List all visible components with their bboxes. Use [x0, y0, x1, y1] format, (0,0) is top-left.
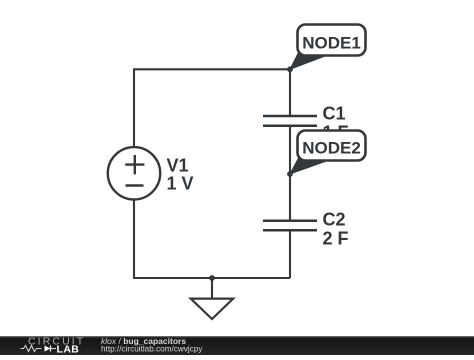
- node NODE2 flag tail: [290, 158, 325, 174]
- logo diode: [45, 346, 51, 352]
- svg-text:C1: C1: [323, 104, 346, 124]
- svg-text:NODE2: NODE2: [302, 138, 361, 157]
- junction dot NODE1: [287, 66, 293, 72]
- capacitor C2: [263, 221, 317, 231]
- svg-text:NODE1: NODE1: [302, 33, 361, 52]
- node NODE1 flag box: [298, 25, 366, 56]
- wire right vertical (C1 to C2): [289, 126, 291, 222]
- footer bar: [0, 336, 474, 355]
- capacitor C1: [263, 116, 317, 126]
- svg-text:V1: V1: [167, 156, 189, 176]
- node NODE2 flag box: [298, 131, 366, 161]
- svg-text:http://circuitlab.com/cwvjcpy: http://circuitlab.com/cwvjcpy: [101, 345, 203, 354]
- svg-text:1 V: 1 V: [167, 174, 194, 194]
- wire ground stub: [211, 278, 213, 299]
- svg-text:LAB: LAB: [57, 343, 80, 355]
- voltage source V1: [108, 147, 160, 199]
- logo resistor zigzag: [21, 346, 42, 352]
- svg-text:2 F: 2 F: [323, 229, 349, 249]
- wire right vertical (C2 to bottom): [289, 230, 291, 278]
- wire left vertical (bottom of V1): [133, 200, 135, 279]
- junction dot NODE2: [287, 171, 293, 177]
- svg-text:C2: C2: [323, 210, 346, 230]
- junction dot ground: [209, 275, 215, 281]
- node NODE1 flag tail: [290, 53, 325, 70]
- wire right vertical (NODE1 to C1): [289, 69, 291, 116]
- wire left vertical (top of V1): [133, 69, 135, 147]
- wire bottom horizontal: [133, 277, 290, 279]
- ground: [191, 299, 234, 319]
- wire top horizontal: [133, 68, 290, 70]
